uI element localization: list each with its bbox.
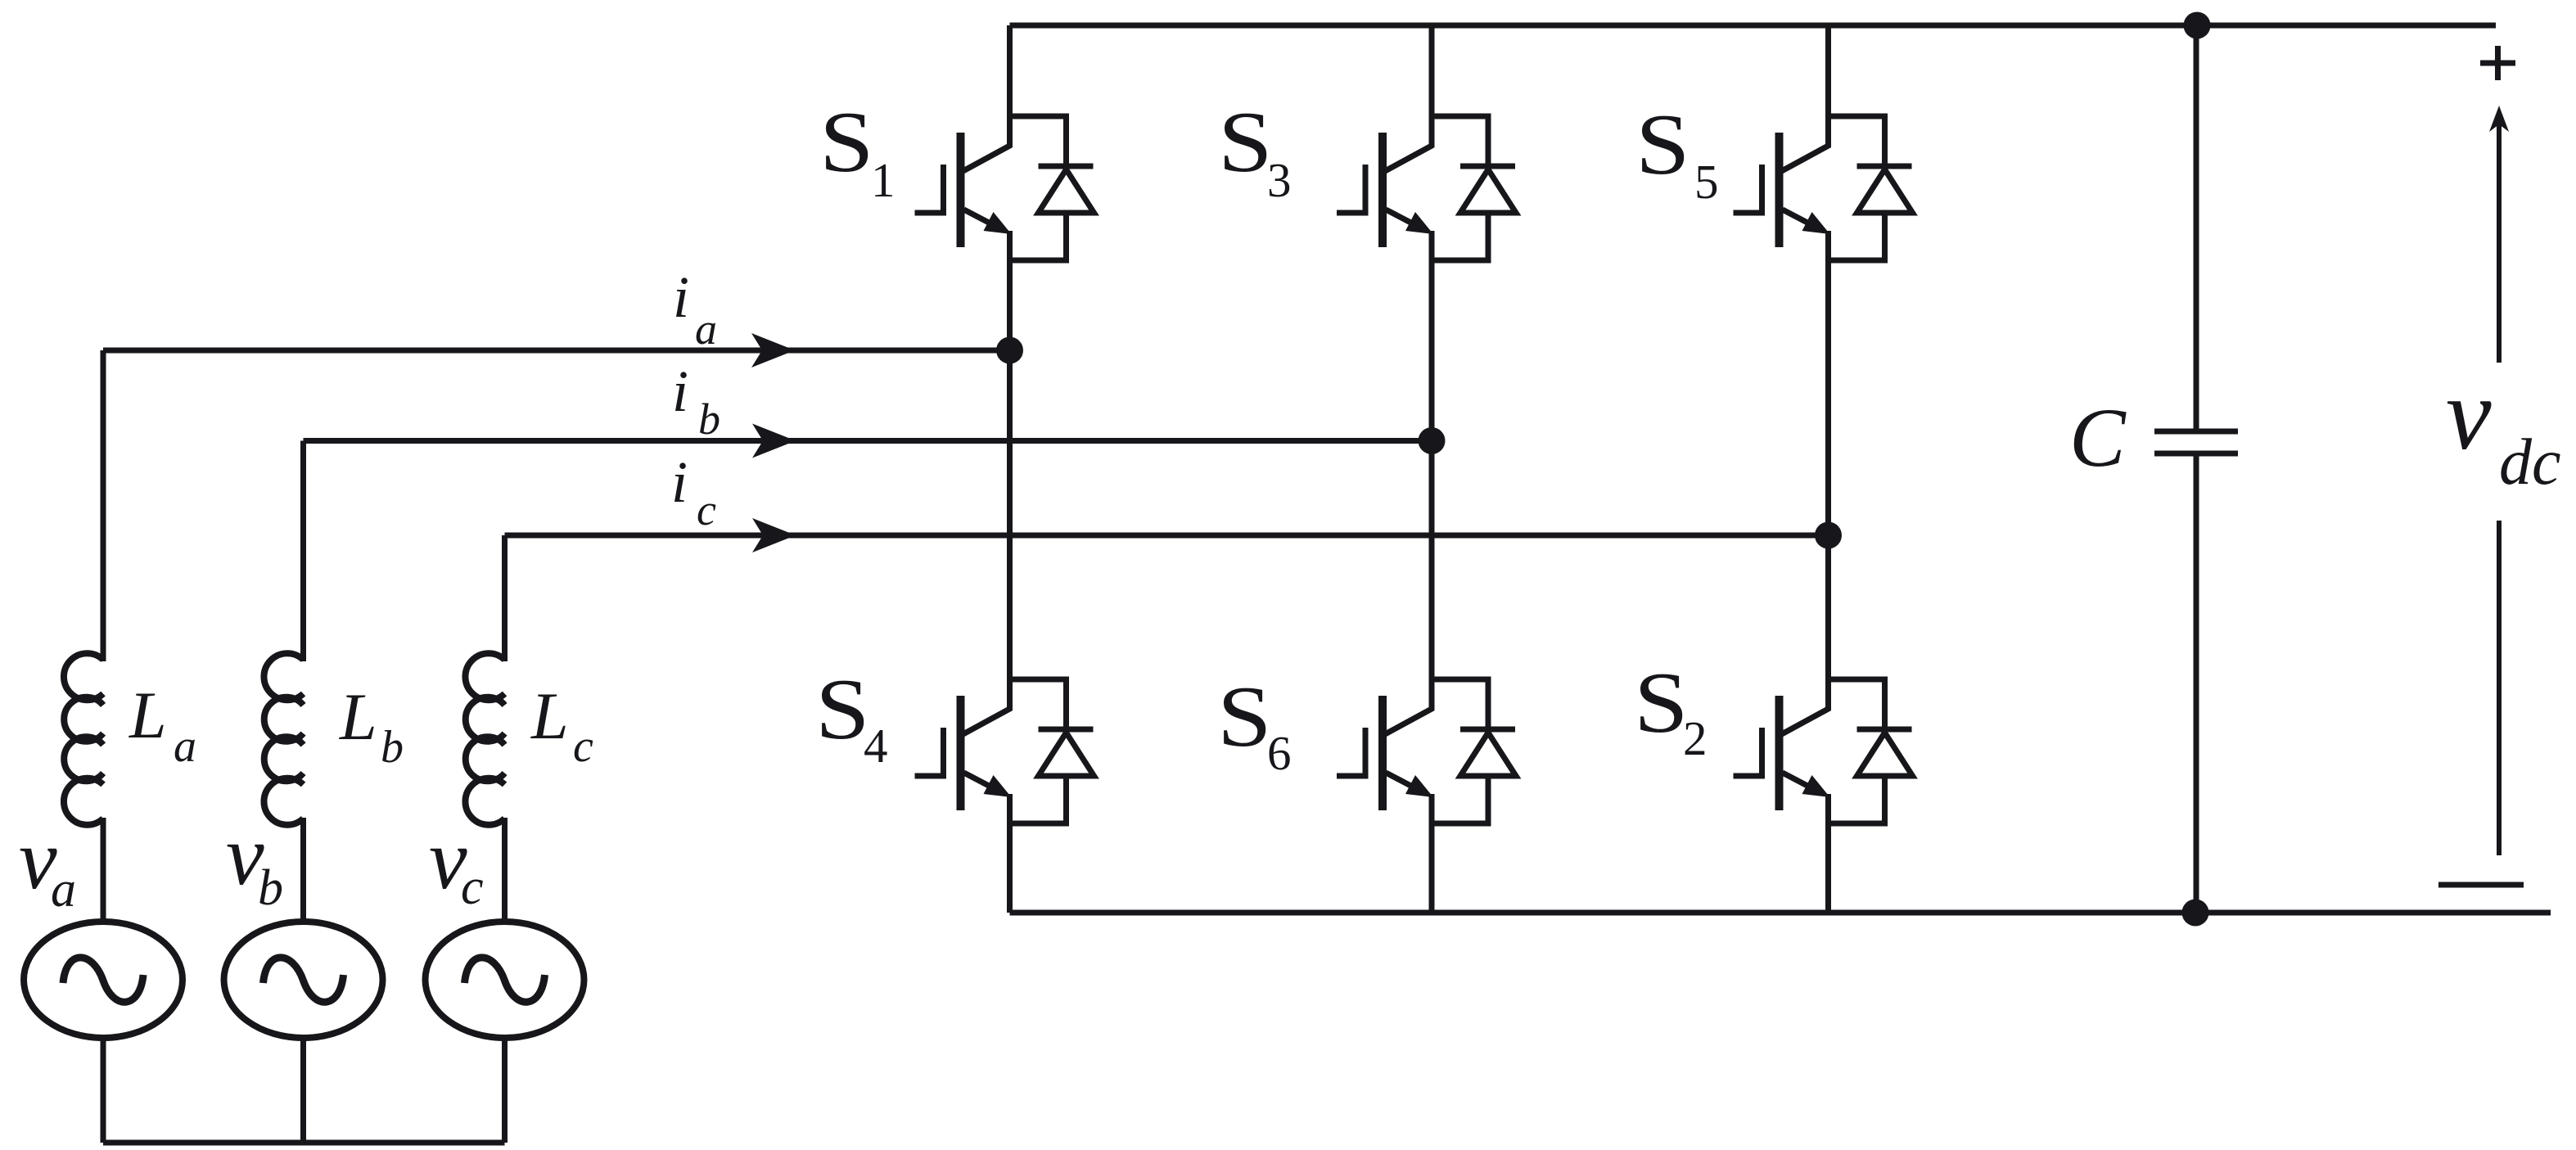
wire: leg 3 midsection (phase c node to S2) — [1825, 232, 1831, 679]
wire: va to bottom bus — [101, 1037, 106, 1143]
svg-text:4: 4 — [864, 719, 888, 773]
inductor La — [64, 653, 103, 825]
svg-text:3: 3 — [1267, 153, 1292, 207]
svg-text:i: i — [672, 359, 688, 424]
transistor S5 (IGBT with anti-parallel diode) — [1734, 114, 1913, 261]
arrow: ia current direction — [751, 333, 795, 368]
svg-text:c: c — [573, 721, 593, 772]
wire: leg 2 collector stub from top rail — [1429, 25, 1435, 116]
svg-text:S: S — [1218, 94, 1273, 190]
node C: phase c junction dot — [1815, 522, 1842, 549]
wire: leg 3 emitter to bottom rail — [1825, 796, 1831, 913]
wire: top DC rail — [1010, 23, 2497, 29]
wire: phase a left vertical down to La — [101, 350, 106, 661]
inductor Lc — [465, 653, 504, 825]
svg-text:a: a — [174, 721, 196, 772]
node: top rail / capacitor junction dot — [2184, 12, 2211, 39]
svg-text:1: 1 — [871, 153, 896, 207]
svg-text:S: S — [1635, 97, 1690, 192]
transistor S1 (IGBT with anti-parallel diode) — [915, 114, 1094, 261]
wire: leg 1 midsection (phase a node to S4) — [1007, 232, 1013, 679]
wire: La to source va — [101, 818, 106, 922]
arrow: ib current direction — [752, 424, 796, 458]
wire: phase c horizontal to node C — [505, 533, 1829, 539]
arrow: ic current direction — [752, 518, 796, 552]
wire: bottom DC rail — [1010, 910, 2551, 916]
wire: leg 3 collector stub from top rail — [1825, 25, 1831, 116]
svg-text:a: a — [51, 862, 76, 918]
transistor S6 (IGBT with anti-parallel diode) — [1337, 677, 1516, 824]
svg-text:dc: dc — [2499, 426, 2561, 498]
node B: phase b junction dot — [1419, 427, 1446, 454]
svg-text:a: a — [695, 304, 717, 354]
wire: phase b left vertical down to Lb — [300, 441, 306, 662]
svg-text:6: 6 — [1267, 726, 1292, 780]
svg-text:S: S — [1634, 655, 1689, 751]
svg-text:5: 5 — [1694, 155, 1719, 209]
wire: leg 1 emitter to bottom rail — [1007, 796, 1013, 913]
capacitor C top lead — [2194, 25, 2199, 434]
capacitor C bottom lead — [2194, 451, 2199, 913]
source vb (AC source) — [224, 922, 383, 1038]
plus sign of vdc — [2480, 46, 2515, 80]
node A: phase a junction dot — [996, 337, 1023, 364]
wire: phase b horizontal to node B — [304, 438, 1432, 444]
svg-text:c: c — [461, 859, 484, 915]
wire: vdc arrow upper shaft — [2497, 123, 2502, 363]
svg-text:S: S — [819, 94, 874, 190]
svg-text:b: b — [381, 722, 404, 773]
svg-text:C: C — [2069, 391, 2127, 485]
svg-text:L: L — [129, 678, 167, 752]
wire: Lb to source vb — [300, 818, 306, 922]
inductor Lb — [264, 653, 303, 825]
wire: leg 2 midsection (phase b node to S6) — [1429, 232, 1435, 679]
minus sign of vdc — [2438, 882, 2524, 888]
svg-text:v: v — [2446, 359, 2492, 471]
wire: leg 1 collector stub from top rail — [1007, 25, 1013, 116]
wire: vdc lower shaft — [2497, 521, 2502, 855]
svg-text:S: S — [1217, 669, 1272, 764]
svg-text:L: L — [530, 679, 569, 753]
transistor S4 (IGBT with anti-parallel diode) — [915, 677, 1094, 824]
arrow: vdc up arrowhead — [2489, 106, 2509, 132]
wire: Lc to source vc — [502, 818, 508, 922]
svg-text:2: 2 — [1683, 711, 1708, 765]
svg-text:b: b — [698, 395, 720, 444]
capacitor C bottom plate — [2154, 451, 2238, 457]
svg-text:b: b — [258, 860, 283, 916]
capacitor C top plate — [2154, 429, 2238, 435]
source vc (AC source) — [426, 922, 584, 1038]
svg-text:S: S — [815, 661, 870, 757]
node: bottom rail / capacitor junction dot — [2182, 900, 2209, 927]
transistor S2 (IGBT with anti-parallel diode) — [1734, 677, 1913, 824]
svg-text:c: c — [697, 485, 716, 534]
svg-text:i: i — [671, 449, 688, 515]
svg-text:L: L — [339, 679, 377, 754]
transistor S3 (IGBT with anti-parallel diode) — [1337, 114, 1516, 261]
source va (AC source) — [24, 922, 183, 1038]
wire: vc to bottom bus — [502, 1037, 508, 1143]
wire: phase c left vertical down to Lc — [502, 535, 508, 661]
wire: bottom neutral bus — [103, 1140, 505, 1146]
wire: leg 2 emitter to bottom rail — [1429, 796, 1435, 913]
wire: vb to bottom bus — [300, 1037, 306, 1143]
svg-text:i: i — [673, 264, 689, 330]
wire: phase a horizontal to node A — [103, 348, 1010, 354]
